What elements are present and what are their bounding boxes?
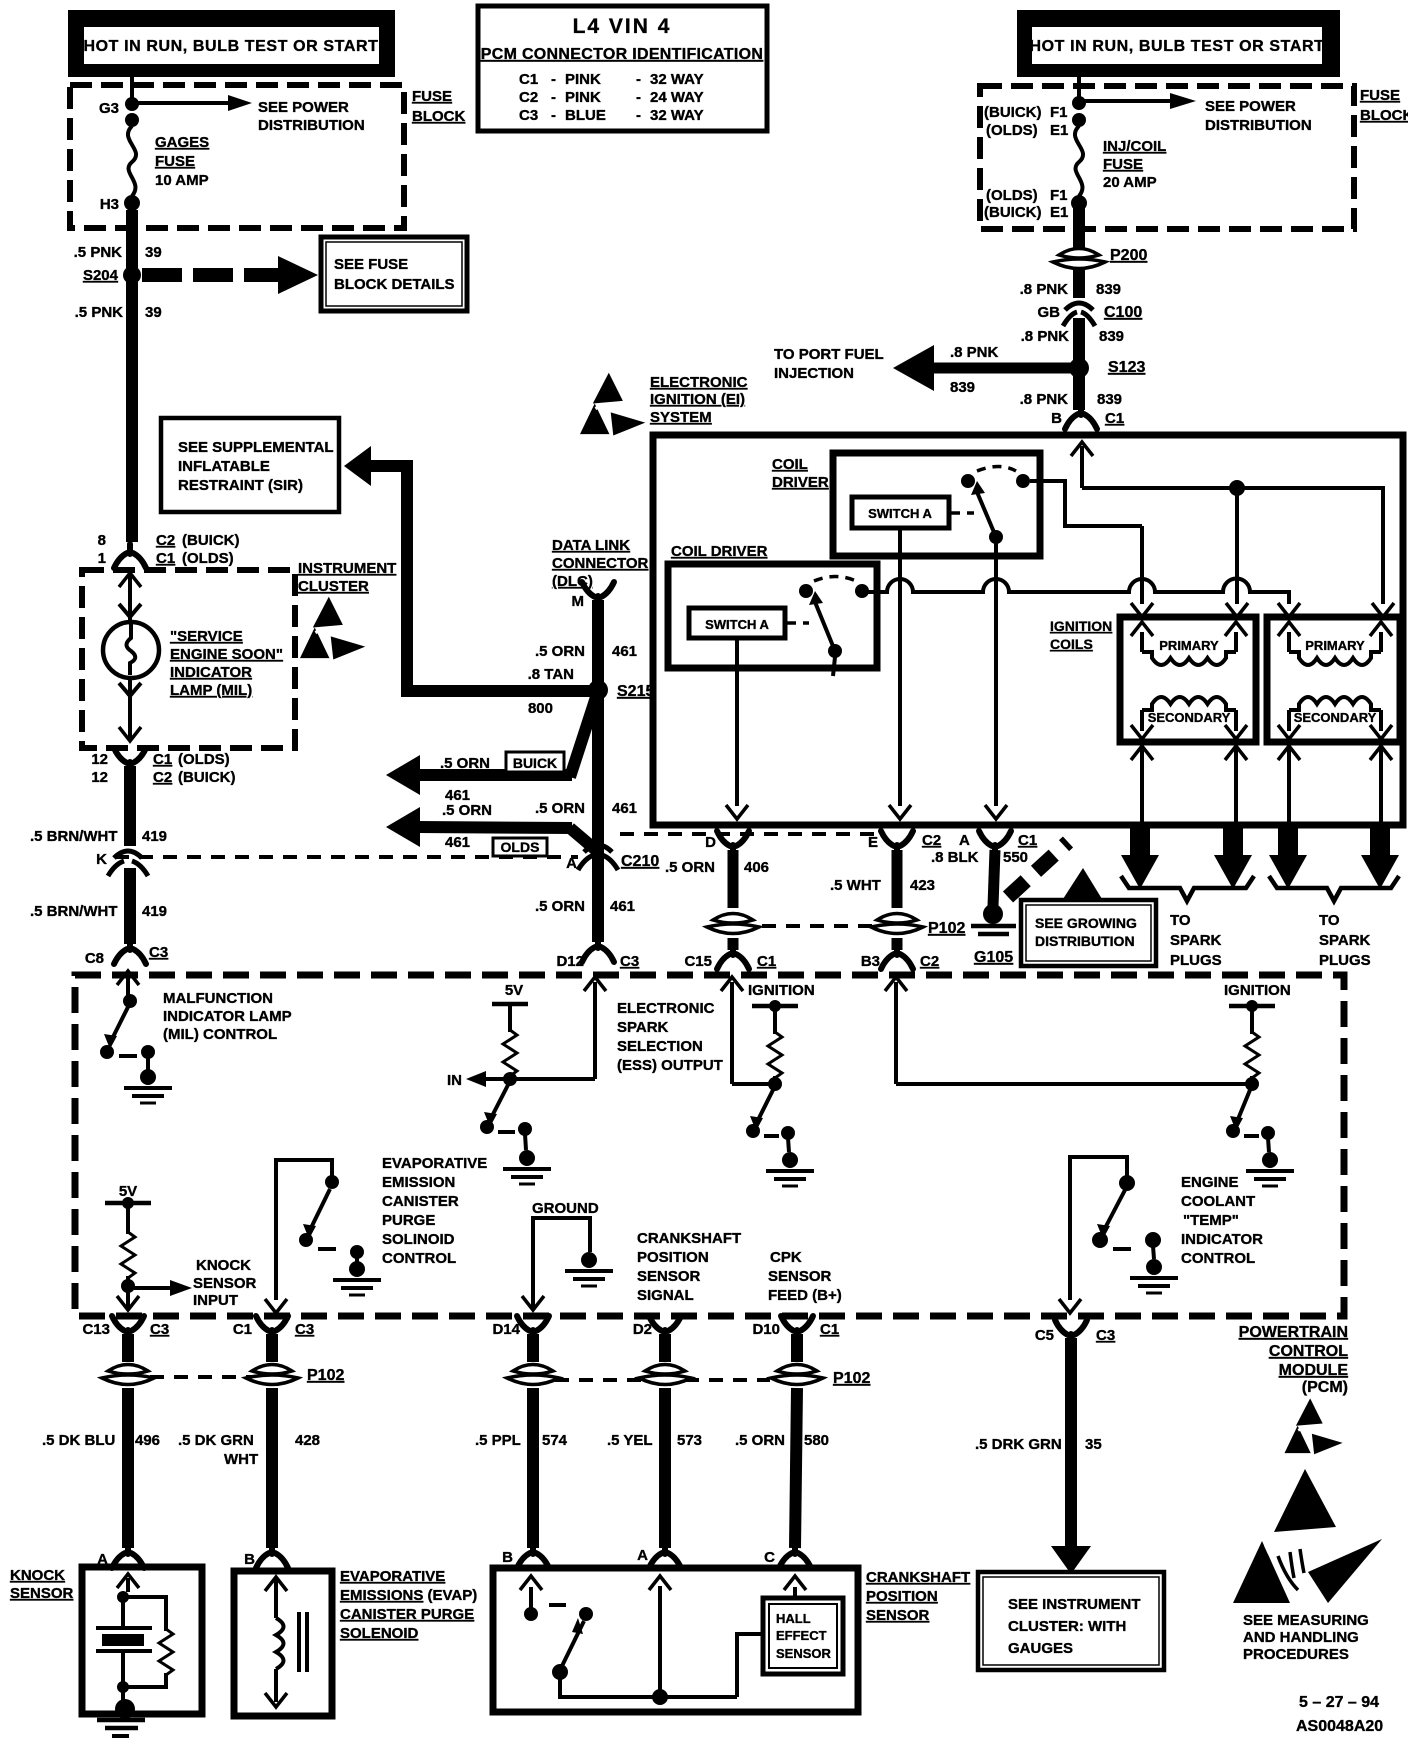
svg-text:CONTROL: CONTROL [382, 1250, 456, 1267]
svg-text:C1: C1 [1018, 832, 1037, 849]
svg-text:.8 PNK: .8 PNK [1021, 328, 1070, 345]
svg-text:461: 461 [612, 643, 637, 660]
svg-text:FUSE: FUSE [1360, 87, 1400, 104]
svg-text:A: A [959, 832, 970, 849]
svg-text:C100: C100 [1104, 304, 1142, 321]
svg-text:C2: C2 [519, 89, 538, 106]
svg-text:FEED (B+): FEED (B+) [768, 1287, 842, 1304]
svg-text:C2: C2 [920, 953, 939, 970]
svg-text:S123: S123 [1108, 359, 1145, 376]
svg-text:CLUSTER: WITH: CLUSTER: WITH [1008, 1618, 1126, 1635]
svg-text:G3: G3 [99, 100, 119, 117]
svg-text:C1: C1 [519, 71, 538, 88]
svg-text:B: B [244, 1551, 255, 1568]
svg-text:E1: E1 [1050, 204, 1068, 221]
svg-text:423: 423 [910, 877, 935, 894]
svg-text:C2: C2 [156, 532, 175, 549]
svg-text:800: 800 [528, 700, 553, 717]
svg-text:TO: TO [1319, 912, 1340, 929]
svg-text:SELECTION: SELECTION [617, 1038, 703, 1055]
svg-text:B3: B3 [861, 953, 880, 970]
svg-text:SEE FUSE: SEE FUSE [334, 256, 408, 273]
svg-text:INFLATABLE: INFLATABLE [178, 458, 270, 475]
svg-text:BLOCK: BLOCK [412, 108, 465, 125]
svg-text:G105: G105 [974, 949, 1013, 966]
svg-text:(BUICK): (BUICK) [984, 104, 1042, 121]
svg-text:.5 DK BLU: .5 DK BLU [42, 1432, 115, 1449]
svg-text:C1: C1 [233, 1321, 252, 1338]
svg-text:419: 419 [142, 828, 167, 845]
svg-text:461: 461 [610, 898, 635, 915]
svg-text:.5 BRN/WHT: .5 BRN/WHT [30, 903, 118, 920]
svg-text:C15: C15 [684, 953, 712, 970]
svg-text:IGNITION: IGNITION [1050, 618, 1112, 634]
svg-text:BLUE: BLUE [565, 107, 606, 124]
svg-text:C5: C5 [1035, 1327, 1054, 1344]
svg-text:TO PORT FUEL: TO PORT FUEL [774, 346, 884, 363]
svg-text:C8: C8 [85, 950, 104, 967]
svg-text:428: 428 [295, 1432, 320, 1449]
svg-text:550: 550 [1003, 849, 1028, 866]
svg-text:F1: F1 [1050, 104, 1068, 121]
svg-text:P102: P102 [307, 1367, 344, 1384]
svg-text:FUSE: FUSE [1103, 156, 1143, 173]
svg-text:5V: 5V [505, 982, 523, 999]
svg-text:SIGNAL: SIGNAL [637, 1287, 694, 1304]
svg-text:-: - [636, 71, 641, 88]
svg-text:MODULE: MODULE [1279, 1362, 1349, 1379]
svg-text:SENSOR: SENSOR [776, 1646, 832, 1661]
svg-text:-: - [551, 107, 556, 124]
svg-text:CONNECTOR: CONNECTOR [552, 555, 649, 572]
svg-text:SWITCH A: SWITCH A [705, 617, 769, 632]
svg-text:INJ/COIL: INJ/COIL [1103, 138, 1166, 155]
svg-text:406: 406 [744, 859, 769, 876]
svg-text:.5 YEL: .5 YEL [607, 1432, 653, 1449]
svg-text:D12: D12 [556, 953, 584, 970]
svg-text:D2: D2 [633, 1321, 652, 1338]
svg-text:INSTRUMENT: INSTRUMENT [298, 560, 396, 577]
svg-text:BLOCK: BLOCK [1360, 107, 1408, 124]
svg-text:24 WAY: 24 WAY [650, 89, 704, 106]
svg-text:1: 1 [98, 550, 106, 567]
svg-text:TO: TO [1170, 912, 1191, 929]
svg-text:496: 496 [135, 1432, 160, 1449]
svg-text:461: 461 [612, 800, 637, 817]
svg-text:RESTRAINT (SIR): RESTRAINT (SIR) [178, 477, 303, 494]
svg-text:-: - [551, 89, 556, 106]
svg-text:.5 PNK: .5 PNK [74, 244, 123, 261]
svg-text:461: 461 [445, 834, 470, 851]
svg-text:DISTRIBUTION: DISTRIBUTION [1035, 933, 1135, 949]
svg-text:.5 ORN: .5 ORN [440, 755, 490, 772]
svg-text:SOLINOID: SOLINOID [382, 1231, 455, 1248]
svg-text:INDICATOR: INDICATOR [1181, 1231, 1263, 1248]
svg-text:EMISSION: EMISSION [382, 1174, 455, 1191]
svg-text:PROCEDURES: PROCEDURES [1243, 1646, 1349, 1663]
svg-text:KNOCK: KNOCK [196, 1257, 251, 1274]
svg-text:C: C [764, 1549, 775, 1566]
svg-text:SENSOR: SENSOR [193, 1275, 257, 1292]
svg-text:LAMP (MIL): LAMP (MIL) [170, 682, 252, 699]
svg-text:C13: C13 [82, 1321, 110, 1338]
svg-text:C3: C3 [519, 107, 538, 124]
svg-text:SEE POWER: SEE POWER [258, 99, 349, 116]
svg-text:.8 TAN: .8 TAN [528, 666, 574, 683]
svg-text:PLUGS: PLUGS [1319, 952, 1371, 969]
svg-text:20 AMP: 20 AMP [1103, 174, 1157, 191]
svg-text:S204: S204 [83, 267, 119, 284]
svg-text:839: 839 [950, 379, 975, 396]
svg-text:D10: D10 [752, 1321, 780, 1338]
svg-text:F1: F1 [1050, 187, 1068, 204]
svg-text:FUSE: FUSE [155, 153, 195, 170]
svg-text:(MIL) CONTROL: (MIL) CONTROL [163, 1026, 277, 1043]
svg-text:419: 419 [142, 903, 167, 920]
svg-text:(ESS) OUTPUT: (ESS) OUTPUT [617, 1057, 723, 1074]
svg-text:E1: E1 [1050, 122, 1068, 139]
svg-text:SENSOR: SENSOR [637, 1268, 701, 1285]
svg-text:CRANKSHAFT: CRANKSHAFT [637, 1230, 741, 1247]
svg-text:.5 PPL: .5 PPL [475, 1432, 521, 1449]
svg-text:P102: P102 [928, 920, 965, 937]
svg-text:INPUT: INPUT [193, 1292, 238, 1309]
svg-text:SECONDARY: SECONDARY [1294, 710, 1377, 725]
svg-text:AND HANDLING: AND HANDLING [1243, 1629, 1359, 1646]
svg-text:IGNITION: IGNITION [748, 982, 815, 999]
svg-text:(OLDS): (OLDS) [986, 187, 1038, 204]
svg-text:(BUICK): (BUICK) [984, 204, 1042, 221]
svg-text:.5 PNK: .5 PNK [75, 304, 124, 321]
svg-text:12: 12 [91, 769, 108, 786]
svg-text:HALL: HALL [776, 1611, 811, 1626]
svg-text:C2: C2 [153, 769, 172, 786]
svg-text:SENSOR: SENSOR [768, 1268, 832, 1285]
svg-text:35: 35 [1085, 1436, 1102, 1453]
svg-text:.8 PNK: .8 PNK [1020, 281, 1069, 298]
svg-text:GAUGES: GAUGES [1008, 1640, 1073, 1657]
svg-text:SECONDARY: SECONDARY [1148, 710, 1231, 725]
svg-text:SEE POWER: SEE POWER [1205, 98, 1296, 115]
svg-text:SYSTEM: SYSTEM [650, 409, 712, 426]
svg-text:WHT: WHT [224, 1451, 258, 1468]
svg-text:P200: P200 [1110, 247, 1147, 264]
svg-text:PINK: PINK [565, 89, 601, 106]
svg-text:M: M [572, 593, 585, 610]
svg-text:.5 ORN: .5 ORN [535, 800, 585, 817]
svg-text:C3: C3 [149, 944, 168, 961]
svg-text:DRIVER: DRIVER [772, 474, 829, 491]
svg-text:PRIMARY: PRIMARY [1159, 638, 1219, 653]
svg-text:5 – 27 – 94: 5 – 27 – 94 [1299, 1694, 1379, 1711]
svg-text:839: 839 [1097, 391, 1122, 408]
svg-text:(OLDS): (OLDS) [986, 122, 1038, 139]
svg-text:COOLANT: COOLANT [1181, 1193, 1255, 1210]
svg-text:HOT IN RUN, BULB TEST OR START: HOT IN RUN, BULB TEST OR START [83, 38, 378, 55]
svg-text:C210: C210 [621, 853, 659, 870]
svg-text:CONTROL: CONTROL [1181, 1250, 1255, 1267]
svg-text:B: B [502, 1549, 513, 1566]
svg-text:PCM CONNECTOR IDENTIFICATION: PCM CONNECTOR IDENTIFICATION [481, 46, 763, 63]
svg-text:-: - [636, 107, 641, 124]
svg-text:SEE INSTRUMENT: SEE INSTRUMENT [1008, 1596, 1141, 1613]
svg-text:CONTROL: CONTROL [1269, 1343, 1348, 1360]
svg-text:.8 PNK: .8 PNK [1020, 391, 1069, 408]
svg-text:PURGE: PURGE [382, 1212, 435, 1229]
svg-text:C2: C2 [922, 832, 941, 849]
svg-text:.5 BRN/WHT: .5 BRN/WHT [30, 828, 118, 845]
svg-text:SENSOR: SENSOR [10, 1585, 74, 1602]
svg-text:EVAPORATIVE: EVAPORATIVE [382, 1155, 487, 1172]
svg-text:INDICATOR: INDICATOR [170, 664, 252, 681]
svg-text:.5 ORN: .5 ORN [735, 1432, 785, 1449]
svg-text:.5 ORN: .5 ORN [535, 898, 585, 915]
svg-text:C3: C3 [295, 1321, 314, 1338]
svg-text:POWERTRAIN: POWERTRAIN [1239, 1324, 1348, 1341]
svg-text:H3: H3 [100, 196, 119, 213]
svg-text:BUICK: BUICK [513, 755, 557, 771]
svg-text:POSITION: POSITION [637, 1249, 709, 1266]
svg-text:-: - [636, 89, 641, 106]
svg-text:.5 DRK GRN: .5 DRK GRN [975, 1436, 1062, 1453]
svg-text:573: 573 [677, 1432, 702, 1449]
svg-text:DISTRIBUTION: DISTRIBUTION [258, 117, 365, 134]
svg-text:(OLDS): (OLDS) [178, 751, 230, 768]
svg-text:CLUSTER: CLUSTER [298, 578, 369, 595]
svg-text:C1: C1 [1105, 410, 1124, 427]
svg-text:IGNITION (EI): IGNITION (EI) [650, 391, 745, 408]
svg-text:P102: P102 [833, 1370, 870, 1387]
svg-text:C3: C3 [150, 1321, 169, 1338]
svg-text:HOT IN RUN, BULB TEST OR START: HOT IN RUN, BULB TEST OR START [1029, 38, 1324, 55]
svg-text:8: 8 [98, 532, 106, 549]
svg-text:ELECTRONIC: ELECTRONIC [650, 374, 748, 391]
svg-text:.5 DK GRN: .5 DK GRN [178, 1432, 254, 1449]
svg-text:K: K [96, 851, 107, 868]
svg-text:E: E [868, 834, 878, 851]
svg-text:EFFECT: EFFECT [776, 1628, 827, 1643]
svg-text:.8 PNK: .8 PNK [950, 344, 999, 361]
svg-text:32 WAY: 32 WAY [650, 71, 704, 88]
svg-text:EVAPORATIVE: EVAPORATIVE [340, 1568, 445, 1585]
svg-text:SPARK: SPARK [1319, 932, 1371, 949]
svg-text:DISTRIBUTION: DISTRIBUTION [1205, 117, 1312, 134]
svg-text:AS0048A20: AS0048A20 [1296, 1718, 1383, 1735]
svg-text:574: 574 [542, 1432, 568, 1449]
svg-text:SEE GROWING: SEE GROWING [1035, 915, 1137, 931]
svg-text:L4 VIN 4: L4 VIN 4 [573, 15, 672, 38]
svg-text:32 WAY: 32 WAY [650, 107, 704, 124]
svg-text:PRIMARY: PRIMARY [1305, 638, 1365, 653]
svg-text:SENSOR: SENSOR [866, 1607, 930, 1624]
svg-text:SOLENOID: SOLENOID [340, 1625, 419, 1642]
svg-text:10 AMP: 10 AMP [155, 172, 209, 189]
svg-text:839: 839 [1096, 281, 1121, 298]
svg-text:IGNITION: IGNITION [1224, 982, 1291, 999]
svg-text:39: 39 [145, 244, 162, 261]
svg-text:SEE SUPPLEMENTAL: SEE SUPPLEMENTAL [178, 439, 334, 456]
svg-text:C3: C3 [620, 953, 639, 970]
svg-text:COIL DRIVER: COIL DRIVER [671, 543, 768, 560]
svg-text:(OLDS): (OLDS) [182, 550, 234, 567]
svg-text:A: A [637, 1547, 648, 1564]
svg-text:C1: C1 [820, 1321, 839, 1338]
svg-text:"TEMP": "TEMP" [1183, 1212, 1239, 1229]
svg-text:C1: C1 [153, 751, 172, 768]
svg-text:ELECTRONIC: ELECTRONIC [617, 1000, 715, 1017]
svg-text:-: - [551, 71, 556, 88]
svg-text:.5 ORN: .5 ORN [535, 643, 585, 660]
svg-text:BLOCK DETAILS: BLOCK DETAILS [334, 276, 455, 293]
svg-text:S215: S215 [617, 683, 654, 700]
svg-text:(BUICK): (BUICK) [178, 769, 236, 786]
svg-text:INDICATOR LAMP: INDICATOR LAMP [163, 1008, 292, 1025]
svg-text:D: D [705, 834, 716, 851]
svg-text:CPK: CPK [770, 1249, 802, 1266]
svg-text:IN: IN [447, 1072, 462, 1089]
svg-text:C1: C1 [757, 953, 776, 970]
svg-text:C3: C3 [1096, 1327, 1115, 1344]
svg-text:.8 BLK: .8 BLK [931, 849, 979, 866]
svg-text:CANISTER: CANISTER [382, 1193, 459, 1210]
svg-text:.5 ORN: .5 ORN [442, 802, 492, 819]
svg-text:GB: GB [1038, 304, 1061, 321]
svg-text:MALFUNCTION: MALFUNCTION [163, 990, 273, 1007]
svg-text:A: A [566, 855, 577, 872]
svg-text:PLUGS: PLUGS [1170, 952, 1222, 969]
svg-text:DATA LINK: DATA LINK [552, 537, 630, 554]
svg-text:PINK: PINK [565, 71, 601, 88]
svg-text:CANISTER PURGE: CANISTER PURGE [340, 1606, 474, 1623]
svg-text:ENGINE: ENGINE [1181, 1174, 1239, 1191]
svg-text:"SERVICE: "SERVICE [170, 628, 243, 645]
svg-text:SWITCH A: SWITCH A [868, 506, 932, 521]
svg-text:39: 39 [145, 304, 162, 321]
svg-text:B: B [1051, 410, 1062, 427]
svg-text:SPARK: SPARK [1170, 932, 1222, 949]
svg-text:KNOCK: KNOCK [10, 1567, 65, 1584]
svg-text:POSITION: POSITION [866, 1588, 938, 1605]
svg-text:580: 580 [804, 1432, 829, 1449]
svg-text:ENGINE SOON": ENGINE SOON" [170, 646, 283, 663]
svg-text:SPARK: SPARK [617, 1019, 669, 1036]
svg-text:D14: D14 [492, 1321, 520, 1338]
svg-text:12: 12 [91, 751, 108, 768]
svg-text:GAGES: GAGES [155, 134, 209, 151]
svg-text:GROUND: GROUND [532, 1200, 599, 1217]
svg-text:OLDS: OLDS [501, 839, 540, 855]
svg-text:INJECTION: INJECTION [774, 365, 854, 382]
svg-text:(PCM): (PCM) [1302, 1379, 1348, 1396]
svg-text:839: 839 [1099, 328, 1124, 345]
svg-text:COIL: COIL [772, 456, 808, 473]
svg-text:SEE MEASURING: SEE MEASURING [1243, 1612, 1369, 1629]
svg-text:.5 ORN: .5 ORN [665, 859, 715, 876]
svg-text:FUSE: FUSE [412, 88, 452, 105]
svg-text:.5 WHT: .5 WHT [830, 877, 881, 894]
svg-text:(BUICK): (BUICK) [182, 532, 240, 549]
svg-text:EMISSIONS (EVAP): EMISSIONS (EVAP) [340, 1587, 477, 1604]
svg-text:CRANKSHAFT: CRANKSHAFT [866, 1569, 970, 1586]
svg-text:COILS: COILS [1050, 636, 1093, 652]
svg-text:C1: C1 [156, 550, 175, 567]
